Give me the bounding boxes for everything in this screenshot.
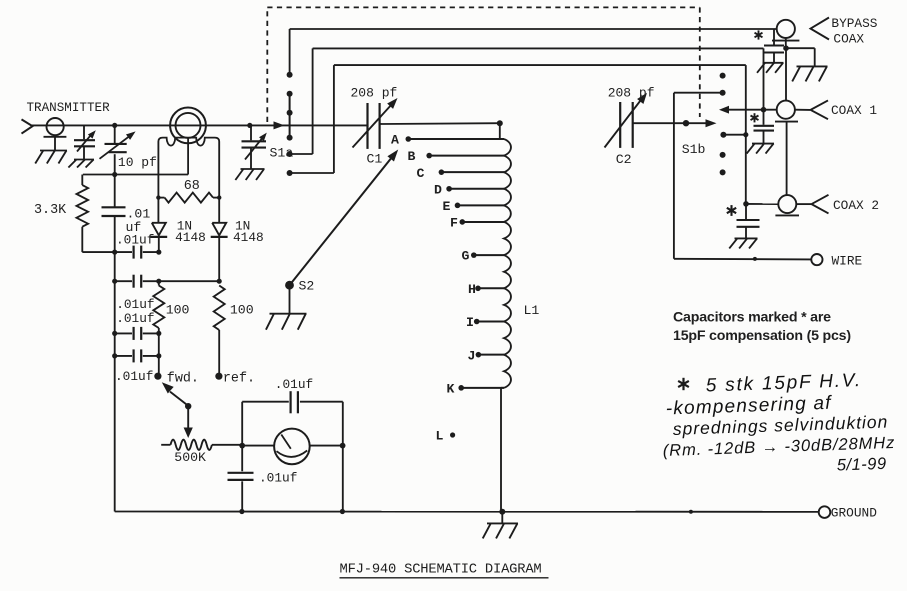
svg-text:208 pf: 208 pf [608, 85, 655, 100]
svg-text:C2: C2 [616, 152, 632, 167]
node: row3 left [112, 331, 117, 336]
node: row1 left [112, 250, 117, 255]
node: COAX2 node junction [743, 201, 749, 207]
node fwd [154, 373, 161, 380]
meter M1 [274, 429, 310, 465]
svg-text:.01uf: .01uf [116, 233, 154, 248]
svg-text:15pF compensation (5 pcs): 15pF compensation (5 pcs) [673, 328, 851, 344]
wire: line y=65 to COAX2 node [334, 65, 746, 204]
svg-text:COAX 1: COAX 1 [831, 103, 877, 118]
ground under S2 [266, 314, 307, 330]
arrow: S1a pole wiper [274, 121, 285, 129]
node: stray junction on wire line [753, 257, 757, 261]
svg-text:5 stk 15pF H.V.: 5 stk 15pF H.V. [705, 370, 862, 396]
ground under transmitter jack [35, 151, 67, 164]
chevron BYPASS [811, 18, 830, 40]
title MFJ-940 SCHEMATIC DIAGRAM [340, 563, 549, 578]
wire: main line C1 to L1 top junction [380, 122, 500, 125]
connector WIRE terminal [811, 254, 822, 265]
switch S1b contact 1 [720, 73, 726, 79]
inductor tap K [447, 381, 505, 396]
svg-text:L1: L1 [524, 303, 540, 318]
capacitor .01uf meter bottom [228, 473, 254, 480]
connector GROUND terminal [819, 506, 831, 518]
node A: junction main line / 10pf branch [112, 123, 117, 128]
wire: L1 top junction down to coil [500, 123, 504, 139]
svg-text:MFJ-940 SCHEMATIC DIAGRAM: MFJ-940 SCHEMATIC DIAGRAM [340, 563, 542, 578]
chevron COAX1 [811, 100, 829, 119]
wire: main line from transmitter input to C1 [32, 124, 368, 126]
svg-text:A: A [391, 133, 399, 148]
switch S1b contact 2 to WIRE [674, 90, 726, 259]
ground under input trimmer [68, 160, 94, 168]
svg-text:Capacitors marked * are: Capacitors marked * are [673, 310, 831, 326]
ground under COAX1 cap [747, 144, 774, 154]
node: 68 right junction [217, 195, 221, 199]
node: row2 mid (R100-1 top) [156, 279, 161, 284]
switch S2 common [285, 281, 294, 290]
svg-text:L: L [436, 429, 444, 444]
node: transmitter input chevron [22, 119, 33, 133]
switch S1a contact 5 [287, 48, 313, 157]
node ref [215, 373, 222, 380]
svg-text:ref.: ref. [223, 371, 255, 386]
ground under BYPASS cap [757, 63, 783, 73]
node: row4 left [112, 353, 117, 358]
switch S1a contact 6 [287, 65, 334, 176]
svg-text:.01uf: .01uf [115, 369, 153, 384]
svg-text:WIRE: WIRE [832, 253, 863, 268]
node: meter branch left [239, 443, 245, 449]
capacitor row3 .01uf between rails [115, 327, 159, 340]
capacitor row1 .01uf between rails [115, 246, 159, 259]
switch S1a contact bar (contacts 2-4) [287, 91, 293, 141]
node: stray junction on ground rail [689, 510, 693, 514]
svg-text:I: I [466, 315, 474, 330]
capacitor * compensation at COAX1 [754, 110, 775, 144]
ground for BYPASS shell [792, 66, 827, 81]
wire: meter loop right rail [342, 402, 344, 512]
wire: bypass line y=29 to BYPASS connector [290, 28, 777, 30]
wire: winding left leg down to 68/diode column [157, 142, 159, 223]
svg-text:.01uf: .01uf [275, 377, 313, 392]
node: row4 right [156, 353, 161, 358]
capacitor C1 208pf variable [353, 98, 398, 149]
svg-text:D: D [434, 182, 442, 197]
wire: horizontal rail y=174.5 from 3.3K to toroid centre leg [83, 174, 188, 176]
svg-text:COAX: COAX [833, 31, 864, 46]
capacitor C2 208pf variable [605, 93, 648, 148]
node: junction at S1a shunt cap [247, 123, 252, 128]
svg-text:500K: 500K [174, 450, 206, 465]
wire: vertical rail x=114 from main line down to ground rail [114, 125, 116, 143]
inductor tap L (unconnected) [436, 429, 456, 444]
wire: line y=48 to COAX1 node [313, 48, 764, 109]
svg-text:4148: 4148 [233, 230, 264, 245]
wire: meter loop left rail [241, 402, 243, 512]
capacitor row2 .01uf between rails [115, 275, 220, 288]
connector COAX 1 [775, 101, 810, 122]
node: BYPASS shell junction [783, 45, 789, 51]
wire: COAX1 down to COAX2 [786, 122, 788, 196]
node: wiper elbow [185, 403, 191, 409]
svg-text:S2: S2 [299, 278, 315, 293]
wire: dashed bypass route [267, 7, 700, 122]
star mark at COAX2 cap [730, 205, 732, 216]
svg-text:3.3K: 3.3K [34, 203, 67, 218]
capacitor .01 uf (horizontal plates on rail x=114) [102, 207, 126, 216]
star mark at COAX1 cap [754, 113, 756, 122]
wire: winding right leg down to diode2 column [218, 142, 220, 223]
inductor tap D [434, 182, 504, 197]
switch S1b contact 3 arrow to COAX1 node [719, 106, 777, 114]
svg-text:J: J [468, 348, 476, 363]
inductor tap F [450, 216, 504, 231]
wire: meter loop top rail [242, 401, 343, 403]
ground under COAX2 cap [729, 238, 757, 248]
svg-text:COAX 2: COAX 2 [833, 198, 879, 213]
potentiometer R 500K [161, 440, 242, 450]
svg-text:68: 68 [184, 179, 200, 194]
node: S1b pole junction [683, 120, 689, 126]
capacitor * compensation at COAX2 [737, 204, 760, 238]
capacitor C 10pf variable [100, 131, 136, 158]
connector BYPASS COAX [772, 20, 799, 48]
svg-text:.01uf: .01uf [259, 471, 297, 486]
capacitor: input trimmer to ground [74, 125, 96, 159]
diode D2 1N4148 [211, 223, 228, 281]
svg-text:C: C [417, 166, 425, 181]
svg-text:BYPASS: BYPASS [831, 16, 877, 31]
resistor R 68 [158, 193, 219, 203]
wire: meter select arrow to fwd [162, 382, 188, 405]
handwritten star [682, 378, 684, 390]
svg-text:fwd.: fwd. [167, 371, 199, 386]
node: L1 bottom on ground rail [499, 509, 505, 515]
inductor tap G [462, 249, 505, 264]
switch S1b contact 5 [720, 152, 726, 158]
node: meter branch right [340, 443, 346, 449]
inductor L1 coil [504, 139, 511, 388]
capacitor row4 .01uf between rails [115, 349, 159, 362]
transformer T1 toroid core [170, 108, 206, 144]
node: row2 right (R100-2 top) [217, 279, 222, 284]
connector J1 transmitter jack [44, 118, 67, 150]
svg-text:E: E [443, 199, 451, 214]
wire: main line C2 to S1b pole [633, 122, 706, 124]
star mark at BYPASS cap [758, 30, 760, 39]
svg-text:K: K [447, 381, 455, 396]
wire: BYPASS down to COAX1 [785, 48, 787, 100]
arrow: S1b pole wiper [706, 119, 717, 127]
svg-text:F: F [450, 216, 458, 231]
svg-text:4148: 4148 [175, 230, 206, 245]
chevron COAX2 [812, 195, 829, 214]
svg-text:.01uf: .01uf [116, 311, 154, 326]
wire: meter horizontal branch [242, 445, 343, 447]
switch S1b contact 4 to COAX2 branch [720, 132, 748, 138]
inductor tap I [466, 315, 504, 330]
resistor R 100 (first) [153, 281, 164, 376]
svg-text:C1: C1 [367, 152, 383, 167]
wire: S2 to ground stub [289, 285, 291, 313]
svg-text:B: B [408, 149, 416, 164]
inductor tap E [443, 199, 505, 214]
resistor R 3.3K [77, 175, 115, 253]
resistor R 100 (second) [214, 286, 225, 377]
wire: ground rail bottom [115, 511, 819, 513]
node: meter loop left on ground rail [239, 509, 244, 514]
inductor tap H [468, 282, 504, 297]
inductor tap C [417, 166, 505, 181]
node: 68 left junction [156, 195, 160, 199]
svg-text:H: H [468, 282, 476, 297]
switch S1a contact 1 [287, 29, 293, 78]
wire: L1 bottom to ground rail [501, 388, 504, 512]
connector COAX 2 [775, 195, 811, 215]
switch S2 wiper arrow to inductor taps [290, 150, 399, 286]
node: row2 left [112, 279, 117, 284]
capacitor: shunt trimmer at S1a [242, 125, 267, 168]
capacitor * compensation at BYPASS [764, 29, 784, 63]
svg-text:G: G [462, 249, 470, 264]
node: COAX1 node junction [761, 107, 767, 113]
node: junction rail/horizontal rail y=174.5 [112, 172, 117, 177]
wire: BYPASS shell to chassis ground [786, 48, 815, 66]
ground under L1 bottom [483, 512, 518, 539]
inductor tap J [468, 348, 505, 363]
svg-text:.01uf: .01uf [116, 297, 154, 312]
node: L1 top junction [497, 120, 503, 126]
svg-text:100: 100 [166, 303, 190, 318]
svg-text:100: 100 [230, 303, 254, 318]
svg-text:TRANSMITTER: TRANSMITTER [27, 101, 111, 115]
svg-text:5/1-99: 5/1-99 [837, 455, 887, 475]
svg-text:208 pf: 208 pf [351, 86, 398, 101]
wire: COAX2 node to connector [746, 203, 778, 205]
wire: S1b contact2 branch to WIRE connector [674, 258, 812, 261]
node: row3 right [156, 331, 161, 336]
inductor tap B [408, 149, 505, 164]
svg-text:S1b: S1b [682, 142, 706, 157]
ground under S1a shunt trimmer [235, 169, 264, 180]
switch S1b contact 6 [720, 169, 726, 175]
node: row1 right [156, 250, 161, 255]
node: meter loop right on ground rail [340, 509, 345, 514]
inductor tap A [391, 133, 504, 148]
capacitor .01uf meter top [291, 391, 298, 413]
svg-text:GROUND: GROUND [831, 506, 877, 521]
svg-text:10 pf: 10 pf [118, 155, 157, 170]
transformer T1 secondary winding [158, 138, 219, 175]
wire: wiper arrow down to 500K [184, 406, 193, 438]
diode D1 1N4148 [150, 223, 167, 252]
